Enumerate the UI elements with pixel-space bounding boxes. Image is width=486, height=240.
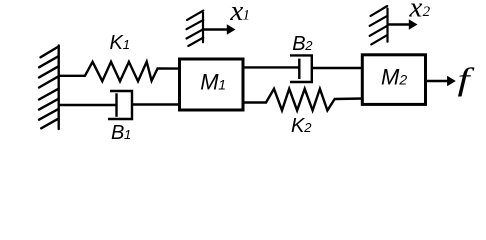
damper B2 cylinder bbox=[290, 55, 312, 82]
fixed wall left bbox=[39, 46, 59, 130]
arrow x1 bbox=[203, 28, 228, 30]
svg-text:x: x bbox=[229, 0, 243, 27]
damper B2 piston bbox=[298, 59, 300, 79]
svg-text:B: B bbox=[111, 122, 124, 144]
mass M2 bbox=[362, 55, 425, 105]
svg-text:2: 2 bbox=[423, 4, 431, 20]
svg-text:x: x bbox=[408, 0, 422, 24]
damper B1 cylinder bbox=[108, 91, 132, 119]
svg-text:1: 1 bbox=[124, 127, 131, 142]
wire damper B1 to M1 bbox=[132, 103, 180, 105]
damper B1 rod bbox=[59, 104, 117, 106]
spring K2 bbox=[242, 89, 363, 111]
damper B2 rod bbox=[242, 66, 299, 68]
force arrow f bbox=[425, 80, 449, 82]
mass M1 bbox=[180, 59, 244, 110]
svg-text:2: 2 bbox=[398, 71, 407, 87]
reference frame x2 bbox=[370, 6, 388, 44]
spring K1 bbox=[59, 62, 180, 81]
svg-text:M: M bbox=[381, 64, 400, 89]
damper B1 piston bbox=[115, 93, 117, 117]
svg-text:1: 1 bbox=[218, 76, 226, 92]
svg-text:B: B bbox=[292, 33, 305, 55]
wire damper B2 to M2 bbox=[312, 67, 363, 69]
reference frame x1 bbox=[187, 11, 204, 46]
svg-text:1: 1 bbox=[123, 37, 130, 52]
svg-text:2: 2 bbox=[303, 120, 312, 135]
svg-text:1: 1 bbox=[243, 7, 251, 23]
arrow x2 bbox=[388, 23, 411, 25]
svg-text:M: M bbox=[200, 69, 219, 94]
svg-text:2: 2 bbox=[304, 38, 313, 53]
